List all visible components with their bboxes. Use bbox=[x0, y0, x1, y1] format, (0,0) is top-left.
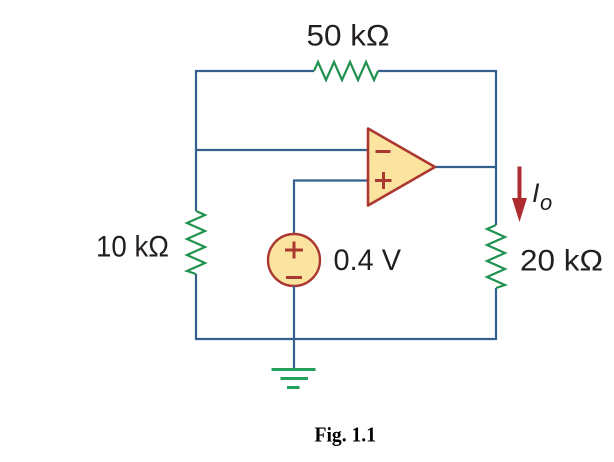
op-amp U1 bbox=[368, 129, 435, 206]
source plus mark bbox=[285, 242, 303, 259]
op-amp noninverting pin mark bbox=[375, 172, 392, 189]
svg-text:20 kΩ: 20 kΩ bbox=[520, 245, 603, 278]
wire: inverting input from left node bbox=[196, 149, 368, 151]
resistor 10 kOhm (left) bbox=[187, 211, 205, 274]
svg-text:10 kΩ: 10 kΩ bbox=[96, 231, 169, 264]
svg-text:Io: Io bbox=[532, 178, 552, 215]
resistor 50 kOhm (top feedback) bbox=[314, 62, 378, 80]
ground bbox=[272, 370, 316, 388]
wire: source bottom to ground stub bbox=[293, 286, 295, 369]
svg-text:0.4 V: 0.4 V bbox=[334, 244, 402, 277]
voltage source V1 0.4V bbox=[268, 234, 320, 286]
wire: top net from left node to right node bbox=[196, 70, 496, 72]
wire: right vertical branch bbox=[495, 70, 497, 340]
wire: noninverting input from source bbox=[294, 181, 368, 236]
source minus mark bbox=[286, 276, 302, 279]
wire: op-amp output to right node bbox=[435, 166, 496, 168]
current arrow Io bbox=[512, 167, 527, 223]
wire: left vertical branch bbox=[195, 70, 197, 340]
svg-text:Fig. 1.1: Fig. 1.1 bbox=[315, 423, 377, 447]
wire: bottom net bbox=[195, 338, 497, 340]
svg-text:50 kΩ: 50 kΩ bbox=[307, 20, 390, 53]
resistor 20 kOhm (right load) bbox=[487, 225, 505, 288]
op-amp inverting pin mark bbox=[376, 150, 391, 153]
